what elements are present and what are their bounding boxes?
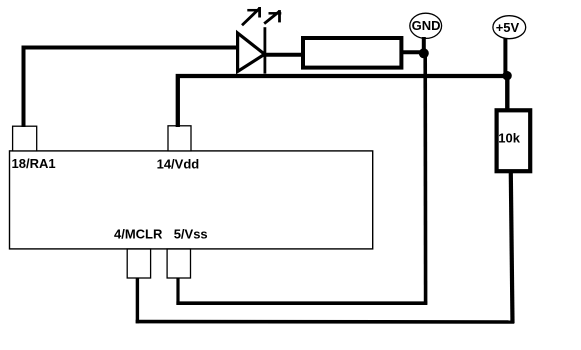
LED arrow 2 head (269, 12, 282, 15)
LED arrow 1 shaft (242, 9, 259, 26)
LED cathode bar (263, 27, 266, 73)
+5V junction dot (502, 71, 511, 80)
wire MCLR rail horizontal (136, 320, 514, 324)
wire 14/Vdd pin up and right to +5V node (178, 76, 508, 127)
svg-text:10k: 10k (498, 130, 520, 145)
svg-text:18/RA1: 18/RA1 (12, 156, 56, 171)
LED D1 triangle (238, 33, 265, 72)
wire Vss rail horizontal (176, 301, 427, 305)
wire RA1 pin up and right to LED anode (24, 48, 237, 128)
wire R2 bottom down (511, 173, 513, 323)
pin box 4/MCLR (127, 249, 150, 278)
+5V bubble (493, 16, 526, 39)
pin box 5/Vss (167, 249, 190, 278)
LED arrow 1 head (247, 9, 261, 12)
LED arrow 2 shaft (264, 11, 280, 24)
resistor R2 body (497, 110, 531, 171)
svg-text:5/Vss: 5/Vss (174, 227, 208, 242)
wire GND node down to Vss rail (423, 53, 427, 305)
wire 4/MCLR pin down (136, 278, 139, 324)
resistor R1 body (303, 38, 401, 68)
pin box 18/RA1 (13, 126, 37, 151)
wire node to resistor R2 (505, 76, 509, 110)
svg-text:+5V: +5V (496, 20, 520, 35)
wire R1 to GND node (403, 50, 425, 54)
GND junction dot (419, 48, 429, 58)
IC U1 body (10, 151, 373, 249)
svg-text:4/MCLR: 4/MCLR (114, 227, 163, 242)
wire 5/Vss pin down (176, 278, 179, 305)
pin box 14/Vdd (168, 126, 191, 151)
wire LED cathode to resistor R1 (266, 53, 303, 57)
svg-text:14/Vdd: 14/Vdd (157, 157, 200, 172)
GND bubble (410, 13, 442, 38)
svg-text:GND: GND (412, 18, 441, 33)
wire GND bubble to node (422, 37, 426, 53)
wire +5V bubble to node (503, 39, 507, 76)
